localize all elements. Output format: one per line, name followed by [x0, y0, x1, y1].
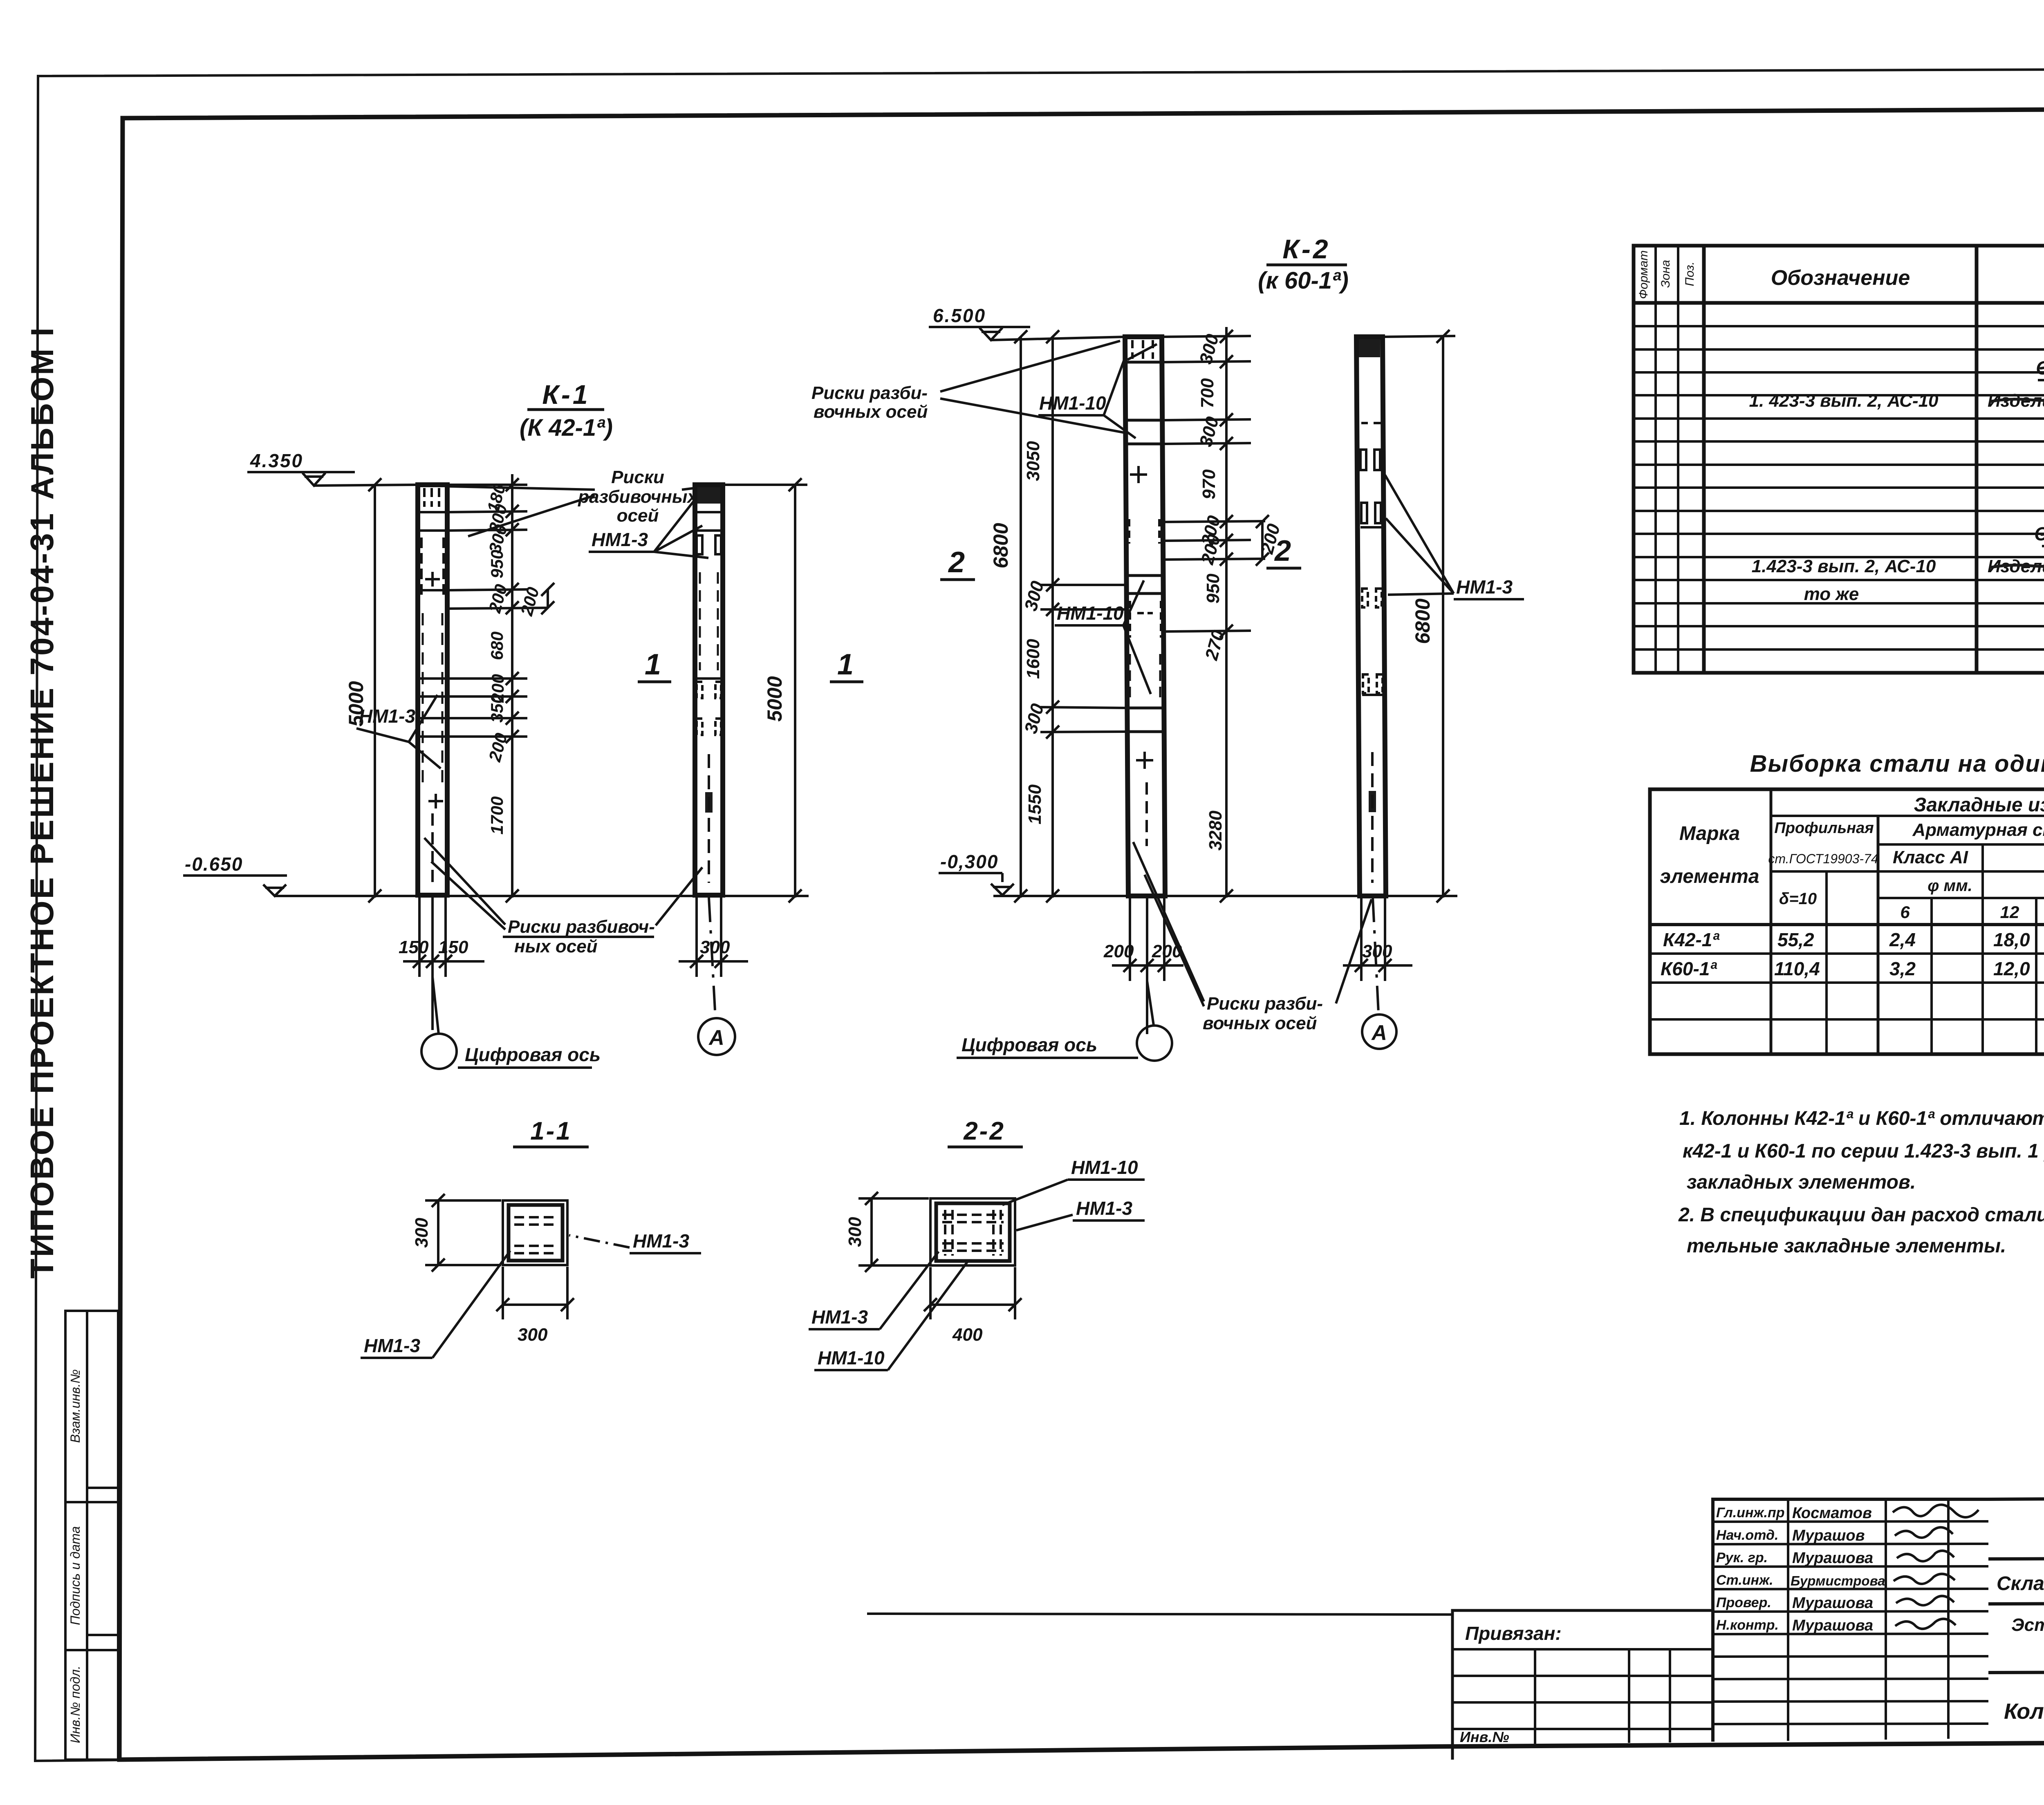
axis circle А K-1 — [698, 898, 735, 1055]
svg-text:НМ1-10: НМ1-10 — [1057, 602, 1124, 624]
specification table grid — [1634, 246, 2044, 673]
svg-text:вочных осей: вочных осей — [814, 402, 928, 422]
svg-text:300: 300 — [1362, 941, 1392, 961]
svg-text:Привязан:: Привязан: — [1465, 1623, 1562, 1644]
svg-text:Риски разби-: Риски разби- — [1207, 994, 1323, 1014]
svg-text:Цифровая ось: Цифровая ось — [961, 1034, 1097, 1055]
section 2-2 bottom dim 400 — [924, 1267, 1022, 1319]
svg-text:Косматов: Косматов — [1792, 1505, 1872, 1522]
svg-text:тельные закладные элементы.: тельные закладные элементы. — [1687, 1235, 2006, 1257]
svg-text:950: 950 — [1203, 573, 1223, 604]
scan scribble overwrites (spec table) — [1991, 365, 2044, 595]
svg-text:1.423-3 вып. 2, АС-10: 1.423-3 вып. 2, АС-10 — [1752, 556, 1936, 576]
svg-text:6: 6 — [1900, 902, 1910, 922]
K-2 side bottom dim 300 — [1343, 898, 1412, 981]
svg-text:к42-1 и К60-1 по серии 1: к42-1 и К60-1 по серии 1.423-3 вып. 1 ра… — [1683, 1140, 2044, 1162]
svg-text:(К 42-1ª): (К 42-1ª) — [520, 414, 613, 441]
K-2 bottom level line — [993, 895, 1457, 897]
svg-text:то же: то же — [1804, 584, 1859, 604]
leaders to K-1 column top — [450, 486, 695, 536]
svg-text:Гл.инж.пр: Гл.инж.пр — [1716, 1505, 1785, 1521]
svg-text:6.500: 6.500 — [933, 305, 986, 326]
svg-text:закладных элементов.: закладных элементов. — [1687, 1171, 1916, 1193]
svg-text:разбивочных: разбивочных — [578, 487, 698, 507]
svg-text:НМ1-10: НМ1-10 — [1071, 1157, 1138, 1178]
column K-1 front view — [418, 485, 447, 895]
svg-text:(к 60-1ª): (к 60-1ª) — [1258, 267, 1349, 294]
svg-text:Зона: Зона — [1659, 260, 1672, 288]
svg-text:НМ1-3: НМ1-3 — [1076, 1198, 1132, 1219]
svg-text:Инв.№ подл.: Инв.№ подл. — [68, 1666, 83, 1743]
section 1-1 cross-section 300x300 — [503, 1200, 567, 1265]
svg-text:φ мм.: φ мм. — [1927, 877, 1972, 895]
K-1 dim chain right of front column — [448, 474, 548, 902]
svg-text:Марка: Марка — [1679, 823, 1740, 844]
svg-text:4.350: 4.350 — [250, 450, 303, 471]
svg-text:1: 1 — [837, 648, 854, 681]
svg-text:НМ1-10: НМ1-10 — [818, 1347, 885, 1368]
title block main — [1988, 1497, 2044, 1745]
svg-text:680: 680 — [487, 632, 507, 660]
signatures squiggles — [1893, 1505, 1979, 1629]
svg-text:Риски разбивоч-: Риски разбивоч- — [508, 917, 655, 937]
svg-text:300: 300 — [700, 937, 730, 957]
column K-1 side view — [695, 485, 723, 895]
elevation mark 4.350 — [247, 450, 355, 486]
label Риски разбивочных осей (K-1 top) — [578, 467, 698, 526]
axis line and circle (цифровая ось) K-1 — [421, 977, 457, 1069]
svg-text:ных осей: ных осей — [514, 936, 598, 956]
svg-text:3050: 3050 — [1023, 441, 1043, 481]
svg-text:Риски: Риски — [611, 467, 664, 487]
svg-text:К-2: К-2 — [1282, 234, 1330, 264]
svg-text:55,2: 55,2 — [1777, 929, 1814, 950]
label Риски разбивочных осей (K-2 top) — [811, 383, 928, 422]
svg-text:Подпись и дата: Подпись и дата — [68, 1526, 83, 1625]
svg-text:12,0: 12,0 — [1993, 958, 2030, 979]
svg-text:300: 300 — [845, 1217, 865, 1247]
elevation mark 6.500 — [929, 305, 1030, 340]
svg-text:АЛЬБОМ I: АЛЬБОМ I — [24, 326, 60, 499]
svg-text:Цифровая ось: Цифровая ось — [465, 1044, 601, 1065]
svg-text:1. 423-3 вып. 2, АС-10: 1. 423-3 вып. 2, АС-10 — [1749, 391, 1939, 411]
svg-text:элемента: элемента — [1660, 866, 1759, 887]
K-1 bottom level line — [275, 895, 809, 897]
svg-text:150: 150 — [438, 937, 468, 957]
svg-text:Взам.инв.№: Взам.инв.№ — [68, 1369, 83, 1443]
svg-text:-0,300: -0,300 — [940, 851, 998, 872]
K-2 bottom dim 200|200 — [1112, 898, 1183, 1034]
svg-text:вочных осей: вочных осей — [1203, 1013, 1317, 1033]
svg-text:-0.650: -0.650 — [185, 853, 243, 875]
svg-text:2: 2 — [948, 546, 965, 579]
svg-text:Поз.: Поз. — [1683, 262, 1697, 286]
axis circle K-2 (цифровая ось) — [1137, 981, 1172, 1061]
svg-text:ТИПОВОЕ ПРОЕКТНОЕ РЕШЕНИЕ 704-: ТИПОВОЕ ПРОЕКТНОЕ РЕШЕНИЕ 704-04-31 — [24, 512, 60, 1279]
svg-text:Мурашова: Мурашова — [1792, 1617, 1873, 1634]
svg-text:А: А — [708, 1026, 724, 1050]
svg-text:К60-1ª: К60-1ª — [1661, 958, 1717, 979]
K-2 top level line — [991, 337, 1126, 340]
привязан table — [1452, 1610, 1713, 1760]
svg-text:6800: 6800 — [1411, 598, 1434, 644]
K-1 bottom dim 150|150 — [403, 898, 484, 1030]
привязан line — [867, 1614, 1452, 1615]
svg-text:18,0: 18,0 — [1993, 929, 2030, 950]
svg-text:Формат: Формат — [1637, 250, 1650, 299]
svg-text:Арматурная сталь ГОСТ 5781-75: Арматурная сталь ГОСТ 5781-75 — [1912, 820, 2044, 840]
svg-text:1: 1 — [645, 648, 661, 681]
column K-2 side view — [1356, 337, 1386, 896]
svg-text:2: 2 — [1274, 535, 1291, 567]
svg-text:12: 12 — [2000, 902, 2019, 922]
svg-text:300: 300 — [518, 1325, 548, 1345]
svg-text:950: 950 — [487, 550, 507, 578]
svg-text:осей: осей — [617, 506, 659, 526]
secondary 200 dim line K-1 — [541, 583, 554, 614]
svg-text:1550: 1550 — [1025, 784, 1045, 824]
svg-text:Провер.: Провер. — [1716, 1595, 1771, 1610]
K-1 chain labels — [483, 481, 543, 834]
svg-text:5000: 5000 — [763, 676, 786, 721]
svg-text:НМ1-10: НМ1-10 — [1039, 392, 1106, 414]
label Риски разбивочных осей (K-2 bottom) — [1203, 994, 1323, 1033]
svg-text:НМ1-3: НМ1-3 — [811, 1306, 868, 1328]
K-1 title — [520, 379, 613, 441]
svg-text:Бурмистрова: Бурмистрова — [1791, 1573, 1885, 1588]
svg-text:Ст.инж.: Ст.инж. — [1716, 1572, 1773, 1588]
svg-text:Мурашов: Мурашов — [1792, 1527, 1865, 1544]
svg-text:Мурашова: Мурашова — [1792, 1594, 1873, 1612]
bottom-left stamp table — [65, 1311, 118, 1760]
svg-text:150: 150 — [399, 937, 429, 957]
svg-text:2. В спецификации дан рас: 2. В спецификации дан расход стали на до… — [1678, 1204, 2044, 1226]
svg-text:δ=10: δ=10 — [1779, 890, 1817, 908]
notes — [1678, 1108, 2044, 1257]
signature table texts — [1716, 1505, 1785, 1633]
svg-text:350: 350 — [487, 694, 507, 723]
svg-text:1700: 1700 — [487, 796, 507, 834]
svg-text:Нач.отд.: Нач.отд. — [1716, 1527, 1778, 1543]
svg-text:2-2: 2-2 — [963, 1117, 1005, 1145]
section 1-1 bottom dim 300 — [496, 1267, 574, 1319]
svg-text:К-1: К-1 — [542, 379, 590, 410]
svg-text:200: 200 — [1103, 941, 1134, 961]
K-1 top level line — [314, 485, 418, 486]
K-1 right dim 5000 — [724, 478, 807, 902]
svg-text:400: 400 — [952, 1325, 983, 1345]
svg-text:1600: 1600 — [1023, 639, 1043, 679]
svg-text:Инв.№: Инв.№ — [1460, 1729, 1509, 1745]
svg-text:Профильная: Профильная — [1774, 820, 1874, 837]
svg-text:6800: 6800 — [989, 523, 1012, 568]
svg-text:НМ1-3: НМ1-3 — [359, 705, 415, 727]
axis circle А K-2 — [1362, 898, 1396, 1049]
svg-text:970: 970 — [1199, 469, 1219, 499]
svg-text:Склад нефтепродуктов емк. 1 ты: Склад нефтепродуктов емк. 1 тыс. куб.м. — [1997, 1573, 2044, 1594]
svg-text:Эстакады для темных: Эстакады для темных — [2011, 1615, 2044, 1635]
svg-text:Н.контр.: Н.контр. — [1716, 1617, 1779, 1633]
K-2 right dim 6800 (side view) — [1384, 330, 1455, 902]
steel table grid — [1650, 789, 2044, 1054]
svg-text:Выборка стали на один элемент,: Выборка стали на один элемент, кг. — [1750, 750, 2044, 777]
svg-text:110,4: 110,4 — [1774, 958, 1820, 979]
svg-text:ст.ГОСТ19903-74: ст.ГОСТ19903-74 — [1768, 851, 1878, 866]
K-2 far left dim 6800 — [1014, 330, 1027, 902]
left margin vertical title: ТИПОВОЕ ПРОЕКТНОЕ РЕШЕНИЕ 704-04-31 АЛЬБОМ I — [24, 326, 60, 1279]
K-2 title — [1258, 234, 1349, 294]
elevation mark -0.650 — [183, 853, 287, 896]
svg-text:1. Колонны К42-1ª и К60-1ª: 1. Колонны К42-1ª и К60-1ª отличаются от… — [1679, 1108, 2044, 1129]
signature table — [1713, 1499, 1988, 1742]
elevation mark -0,300 — [939, 851, 1014, 895]
section 2-2 left dim 300 — [858, 1192, 929, 1272]
section 1-1 left dim 300 — [425, 1194, 501, 1272]
svg-text:НМ1-3: НМ1-3 — [1456, 576, 1513, 598]
svg-text:НМ1-3: НМ1-3 — [364, 1335, 420, 1356]
K-1 side bottom dim 300 — [679, 898, 748, 977]
steel table data rows — [1661, 929, 2044, 979]
svg-text:Класс АI: Класс АI — [1893, 847, 1968, 867]
svg-text:700: 700 — [1197, 378, 1217, 408]
svg-text:3,2: 3,2 — [1889, 958, 1916, 979]
svg-text:1-1: 1-1 — [530, 1117, 572, 1145]
svg-text:Обозначение: Обозначение — [1771, 266, 1910, 290]
svg-text:2,4: 2,4 — [1889, 929, 1916, 950]
svg-text:НМ1-3: НМ1-3 — [592, 529, 648, 550]
svg-text:Мурашова: Мурашова — [1792, 1550, 1873, 1567]
svg-text:Колонны К1- К-2: Колонны К1- К-2 — [2004, 1699, 2044, 1724]
svg-text:К42-1ª: К42-1ª — [1663, 929, 1719, 950]
svg-text:Риски разби-: Риски разби- — [811, 383, 928, 403]
K-1 left dim 5000 — [368, 478, 381, 902]
svg-text:3280: 3280 — [1206, 811, 1226, 851]
svg-text:Рук. гр.: Рук. гр. — [1716, 1550, 1768, 1565]
K-2 right dim chain — [1163, 327, 1269, 902]
label Риски разбивочных осей (K-1 bottom) — [508, 917, 655, 956]
svg-text:300: 300 — [412, 1218, 432, 1248]
svg-text:НМ1-3: НМ1-3 — [633, 1230, 689, 1252]
svg-text:А: А — [1371, 1021, 1387, 1045]
K-2 left dim chain — [1040, 330, 1126, 902]
column K-2 front view — [1125, 337, 1165, 896]
svg-text:Закладные изделия: Закладные изделия — [1914, 794, 2044, 816]
section 2-2 cross-section 400x300 — [930, 1198, 1015, 1265]
